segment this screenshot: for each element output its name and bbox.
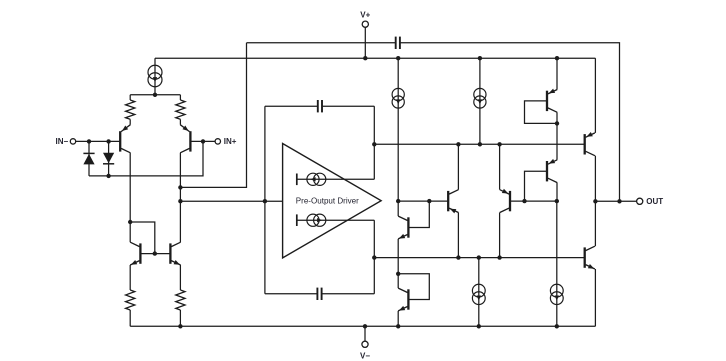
wire Q9 emitter [397,311,399,326]
node mirror bases [153,251,157,255]
wire Q8 base loop [408,201,429,227]
transistor Q11 [585,132,595,156]
resistor R1 [126,95,135,125]
node Q2 collector branches [178,185,182,203]
node cap loop W1 [372,142,376,146]
svg-text:V+: V+ [360,10,370,19]
node Q5 collector [555,121,559,125]
svg-text:IN−: IN− [56,137,69,146]
wire N1 to Q8 collector [397,201,399,216]
wire Q7 base [510,200,557,202]
wire Q6 collector [556,183,558,258]
wire I6 lead [297,174,375,186]
wire comp rail right [400,43,620,202]
node W2 taps [456,255,502,259]
transistor Q3 [130,242,140,265]
wire cap loop left [264,106,266,294]
wire Q7 collector [499,213,501,258]
wire driver input [180,200,282,202]
wire diode return [89,141,203,176]
capacitor C1 [318,100,322,112]
transistor Q6 [547,159,557,183]
wire mirror bases [140,253,170,255]
resistor R4 [176,265,185,326]
op-amp U1 Pre-Output Driver [283,144,382,258]
transistor Q12 [585,246,595,269]
transistor Q1 [120,125,130,153]
transistor Q9 [398,288,408,311]
wire IN+ base [190,140,215,142]
wire Q5 collector [556,112,558,123]
wire Q9 base loop [398,274,429,300]
current source I6 [307,173,326,185]
wire cap loop right lower [373,220,375,294]
wire Q8 emitter [397,239,399,274]
terminal OUT [637,197,664,206]
wire cap loop right upper [373,106,375,179]
svg-text:V−: V− [360,351,370,360]
wire tail bar [130,94,180,96]
wire N2 to Q9 collector [397,274,399,288]
transistor Q8 [398,216,408,239]
wire V- rail [130,325,595,327]
wire Q12 collector [594,201,596,246]
current source I4 [472,258,485,327]
resistor R2 [176,95,185,125]
wire Q11 collector [594,156,596,202]
wire branch to comp cap [180,43,246,188]
resistor R3 [126,265,135,326]
wire W1 [374,143,584,145]
current source I3 [474,58,486,144]
wire Q10 emitter [457,213,459,258]
svg-text:Pre-Output Driver: Pre-Output Driver [296,196,359,205]
node diode return [106,139,205,178]
wire N1 [398,200,448,202]
wire Q10 collector [457,144,459,189]
wire Q12 emitter [594,269,596,326]
wire Q6 base loop [525,171,548,201]
terminal V+ [360,10,370,58]
capacitor C3 [396,37,400,49]
node N2 [396,272,400,276]
wire Q1 collector [129,153,131,242]
wire Q11 emitter [594,58,596,133]
wire Q5 base loop [525,101,558,124]
wire I7 lead [297,214,375,226]
node Q7 base [522,199,559,203]
transistor Q10 [448,190,458,214]
node OUT [593,199,622,203]
wire Q5 emitter [556,58,558,89]
transistor Q5 [547,89,557,113]
wire mirror diode link [130,222,155,254]
node driver input [263,199,267,203]
wire cap loop top [265,105,374,107]
node Q1 collector mirror tap [128,220,132,224]
node N1 [396,199,431,203]
current source I7 [307,214,326,226]
node tail [153,93,157,97]
svg-text:OUT: OUT [646,197,663,206]
wire IN- base [76,140,120,142]
capacitor C2 [317,288,321,300]
wire V+ rail [155,57,595,59]
svg-text:IN+: IN+ [224,137,237,146]
terminal IN+ [215,137,237,146]
terminal V- [360,326,370,360]
diode D2 [103,141,114,176]
node V+ rail taps [363,56,559,60]
wire Q7 emitter [499,144,501,189]
diode D1 [83,141,94,176]
current source I5 [550,258,563,327]
transistor Q4 [170,242,180,265]
wire OUT [595,200,636,202]
node V- rail taps [178,324,559,328]
node IN- diode taps [87,139,111,143]
wire rail A corner to I1 [154,58,156,95]
current source I2 [392,58,404,201]
wire cap loop bottom [265,293,374,295]
node cap loop W2 [372,255,376,259]
wire Q6 emitter [556,123,558,159]
wire comp rail left [247,42,396,44]
current source I1 [148,65,162,87]
transistor Q7 [500,189,510,213]
wire Q2 collector [179,153,181,242]
node W1 taps [456,142,502,146]
transistor Q2 [180,125,190,153]
terminal IN- [56,137,76,146]
wire W2 [374,257,584,259]
